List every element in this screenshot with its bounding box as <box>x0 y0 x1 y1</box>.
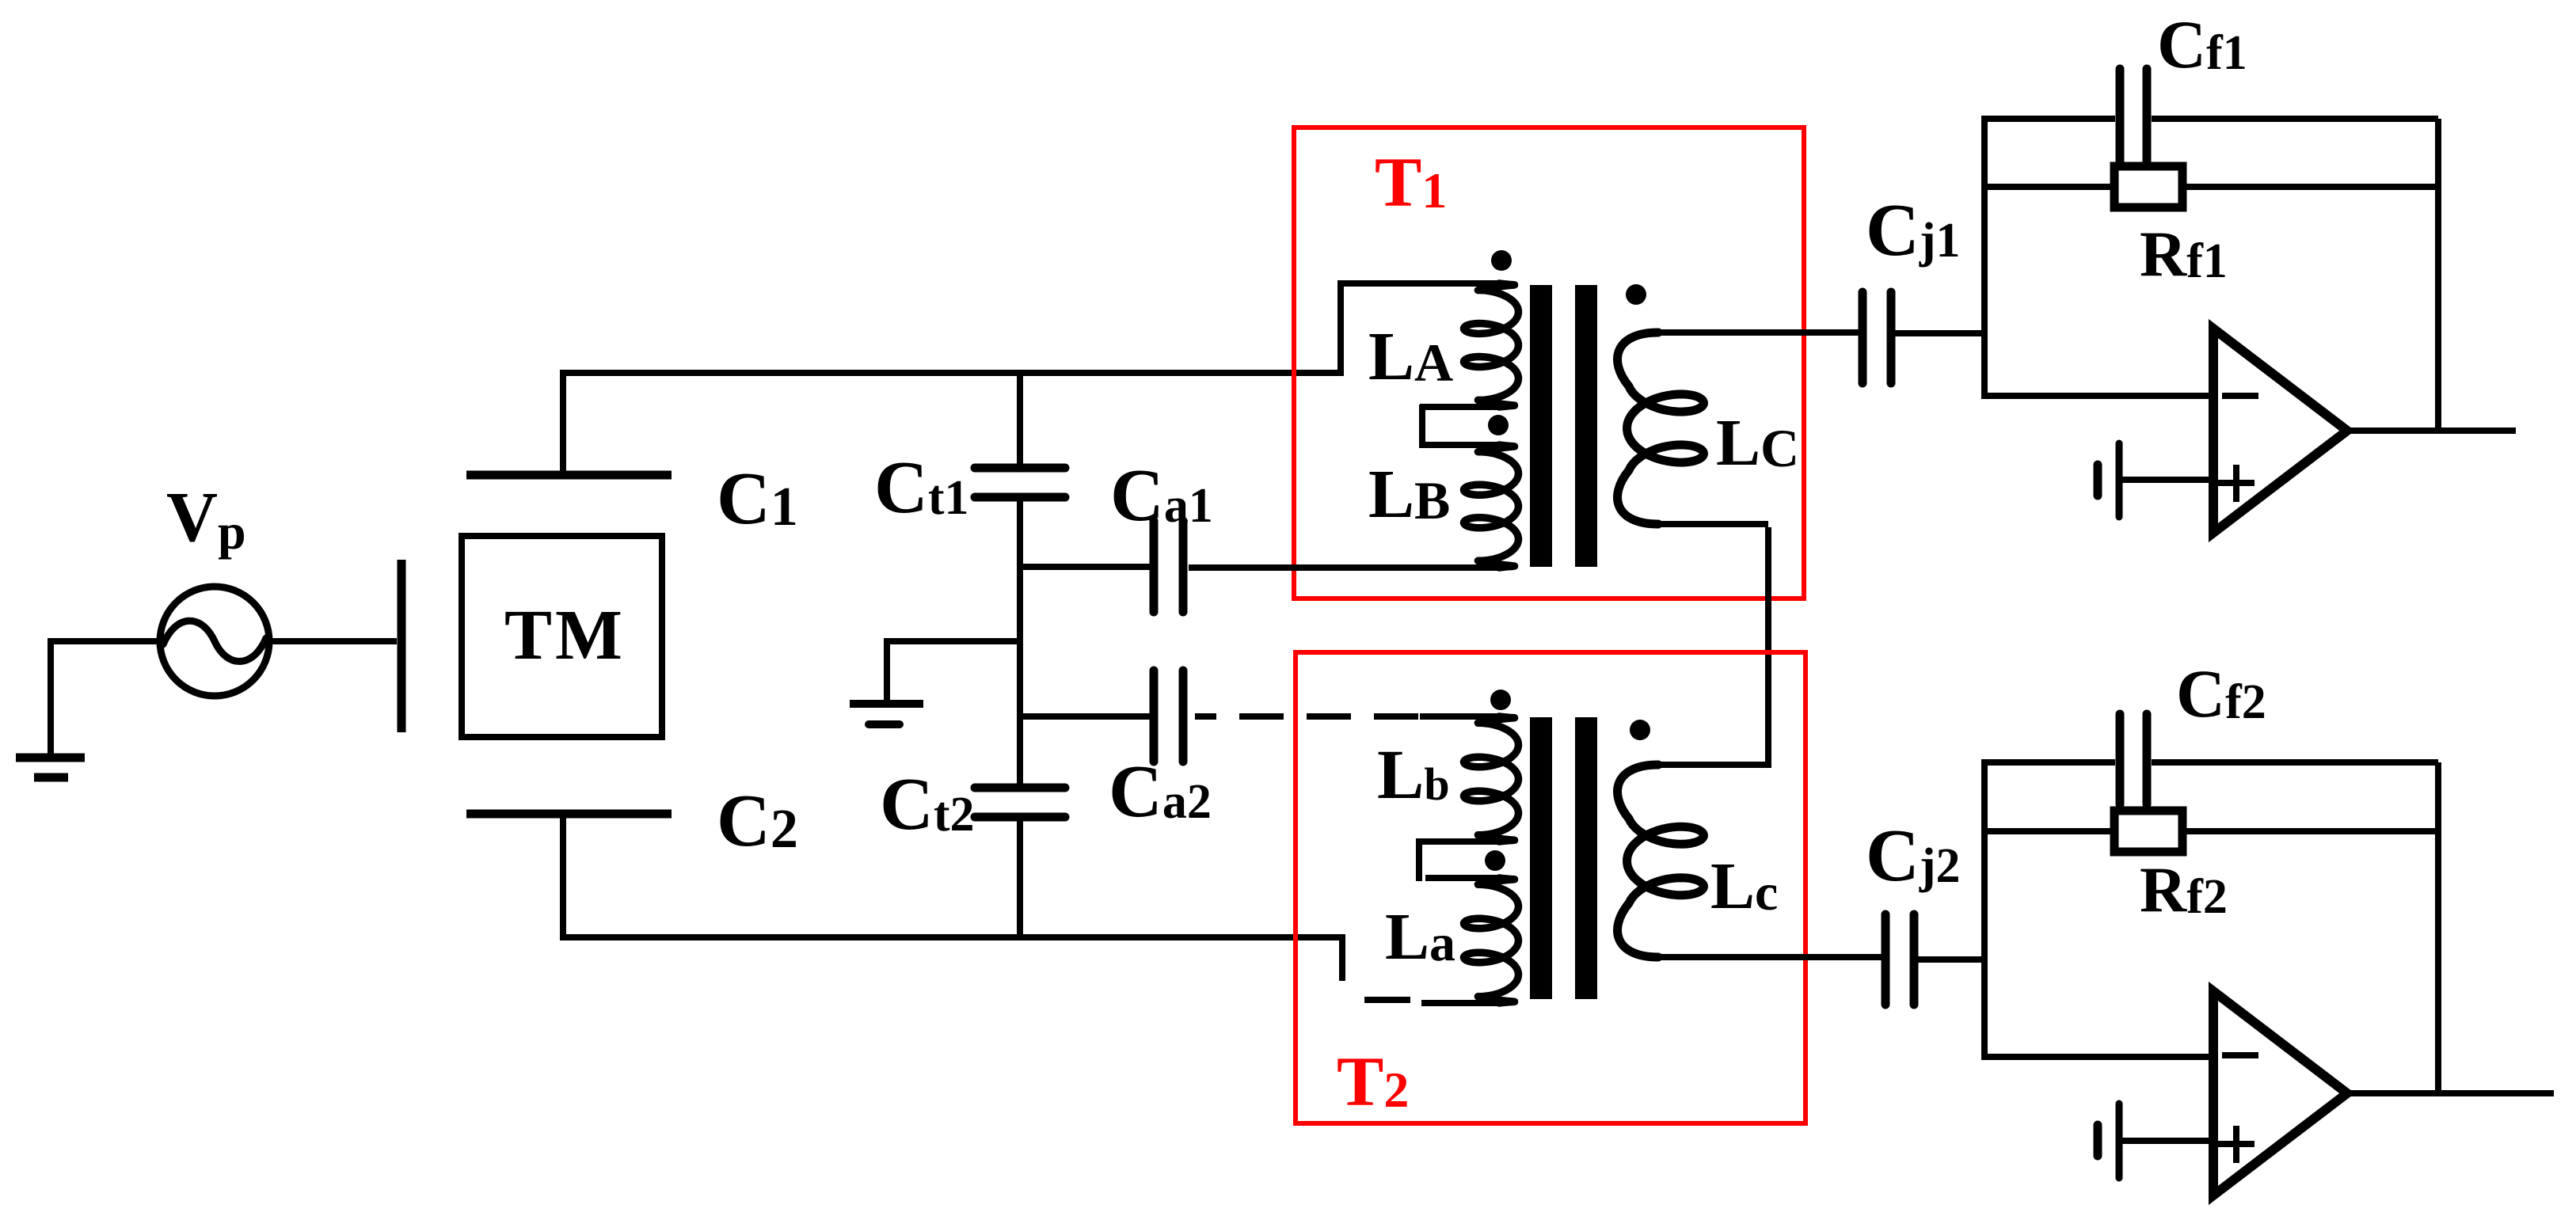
wire LC bottom to Lc top <box>1658 527 1771 765</box>
battery (U2 + bias) <box>2098 1104 2119 1178</box>
op-amp U1 <box>2213 329 2347 533</box>
wire inverting input 1 <box>1981 393 2213 399</box>
transformer T1 box <box>1294 127 1804 598</box>
wire Rf2 rail left <box>1981 828 2117 834</box>
wire Cj2 right <box>1917 956 1988 963</box>
wire Cf1 rail left <box>1981 116 2115 122</box>
label Ca1 <box>1110 454 1213 537</box>
wire Ca2 to Lb (dashed) <box>1195 713 1420 720</box>
label T2 <box>1337 1043 1409 1121</box>
wire Rf2 rail right <box>2179 828 2441 834</box>
resistor Rf1 <box>2114 166 2182 207</box>
capacitor C2 bottom plate <box>466 810 672 819</box>
electrode plate (Vp drive) <box>398 560 406 732</box>
label Cf1 <box>2157 6 2247 82</box>
label Cj1 <box>1866 189 1961 272</box>
wire feedback right vertical 1 <box>2435 119 2441 434</box>
inductor LA <box>1337 283 1519 407</box>
label Ct1 <box>874 446 969 529</box>
capacitor Ct2 <box>975 788 1065 817</box>
capacitor C1 top plate <box>466 471 672 480</box>
wire Cf1 rail right <box>2152 116 2438 122</box>
wire C1 plate to top rail <box>560 373 566 478</box>
capacitor Cf1 <box>2120 69 2147 165</box>
label Lc <box>1710 849 1778 923</box>
minus sign U1 <box>2222 393 2258 399</box>
wire top rail <box>560 370 1341 376</box>
inductor Lc <box>1618 765 1882 957</box>
label LB <box>1368 455 1450 532</box>
wire top rail jog up <box>1337 283 1344 376</box>
dot La (polarity) <box>1485 850 1505 871</box>
label Cj2 <box>1866 815 1961 897</box>
wire battery to plus input 1 <box>2119 477 2213 483</box>
capacitor Ct1 <box>975 468 1065 497</box>
op-amp U2 <box>2213 991 2347 1195</box>
wire inverting input 2 <box>1981 1054 2213 1060</box>
wire Ct2 to bottom rail <box>1017 817 1023 940</box>
wire Ct1 to Ct2 <box>1017 497 1023 788</box>
minus sign U2 <box>2222 1052 2258 1058</box>
label Lb <box>1377 736 1450 814</box>
wire output 1 <box>2344 427 2516 434</box>
inductor Lb <box>1420 716 1519 842</box>
label Cf2 <box>2176 655 2266 731</box>
svg-text:TM: TM <box>504 596 626 674</box>
wire LA to LB jog <box>1422 405 1424 448</box>
label Ca2 <box>1109 750 1212 833</box>
capacitor Ca1 <box>1154 521 1183 612</box>
wire node to Ca2 <box>1017 713 1150 720</box>
dot LA (polarity) <box>1491 250 1512 271</box>
wire Rf1 rail right <box>2179 184 2441 190</box>
label T1 <box>1375 144 1447 222</box>
wire Vp ground to source <box>48 638 163 644</box>
inductor LC <box>1618 332 1859 524</box>
label La <box>1385 900 1455 974</box>
transformer T2 core <box>1530 717 1597 999</box>
label Ct2 <box>880 763 975 845</box>
dot LC (polarity) <box>1626 284 1646 305</box>
label Vp <box>166 478 246 560</box>
test mass TM box <box>462 536 662 737</box>
ground (Ct node) <box>850 638 1023 724</box>
label LC <box>1716 406 1799 480</box>
wire feedback right vertical 2 <box>2435 762 2441 1093</box>
wire bottom rail jog down <box>1339 934 1345 981</box>
plus sign U2 <box>2218 1126 2254 1163</box>
wire Cj1 right <box>1894 330 1988 336</box>
label Rf2 <box>2140 853 2228 925</box>
wire top rail to Ct1 <box>1017 370 1023 468</box>
dot LB (polarity) <box>1488 415 1509 435</box>
transformer T2 box <box>1296 652 1805 1123</box>
transformer T1 core <box>1530 285 1597 567</box>
wire feedback left vertical 1 <box>1981 119 1988 396</box>
wire output 2 <box>2344 1090 2554 1096</box>
wire Lb to La jog <box>1416 838 1422 881</box>
label C2 <box>717 780 798 862</box>
capacitor Cj2 <box>1885 914 1914 1005</box>
ground (Vp source) <box>16 641 85 777</box>
wire Cf2 rail right <box>2152 759 2438 766</box>
wire node to Ca1 <box>1017 564 1150 570</box>
inductor La <box>1421 878 1519 1003</box>
voltage source Vp <box>160 587 269 696</box>
capacitor Ca2 <box>1154 671 1183 762</box>
wire feedback left vertical 2 <box>1981 762 1988 1057</box>
wire Vp to electrode <box>266 638 397 644</box>
dot Lc (polarity) <box>1630 720 1650 740</box>
resistor Rf2 <box>2114 811 2182 852</box>
capacitor Cf2 <box>2120 714 2147 804</box>
wire Rf1 rail left <box>1981 184 2117 190</box>
wire battery to plus input 2 <box>2119 1138 2213 1144</box>
battery (U1 + bias) <box>2098 443 2119 517</box>
label Rf1 <box>2140 218 2228 290</box>
plus sign U1 <box>2218 465 2254 502</box>
label TM <box>504 596 626 674</box>
wire La exit dash <box>1364 997 1410 1003</box>
dot Lb (polarity) <box>1490 690 1511 710</box>
capacitor Cj1 <box>1863 292 1891 383</box>
label C1 <box>717 458 798 540</box>
wire bottom rail <box>560 934 1342 940</box>
wire Cf2 rail left <box>1981 759 2115 766</box>
label LA <box>1368 317 1453 394</box>
wire C2 plate to bottom rail <box>560 811 566 937</box>
inductor LB <box>1189 445 1519 568</box>
